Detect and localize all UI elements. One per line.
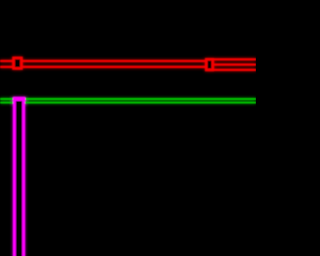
glow halo pass bbox=[0, 58, 256, 256]
bright core pass bbox=[0, 58, 256, 256]
